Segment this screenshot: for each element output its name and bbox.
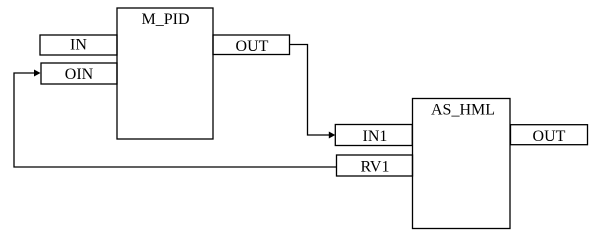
svg-text:IN: IN <box>70 37 87 54</box>
pin label OIN <box>65 66 94 83</box>
svg-text:IN1: IN1 <box>363 128 388 145</box>
wire RV1(AS_HML) to OIN(M_PID) feedback <box>14 73 337 167</box>
pin label OUT (AS_HML) <box>533 128 566 145</box>
svg-text:RV1: RV1 <box>361 159 390 176</box>
svg-text:OIN: OIN <box>65 66 94 83</box>
input pin box IN1 of AS_HML <box>335 125 412 146</box>
output pin box OUT of AS_HML <box>511 125 588 145</box>
arrowhead into IN1 <box>329 132 336 139</box>
svg-text:OUT: OUT <box>533 128 566 145</box>
output pin box OUT of M_PID <box>213 35 290 55</box>
pin label RV1 <box>361 159 390 176</box>
svg-text:AS_HML: AS_HML <box>431 102 495 119</box>
input pin box IN of M_PID <box>40 35 117 55</box>
pin label IN1 <box>363 128 388 145</box>
svg-text:OUT: OUT <box>236 38 269 55</box>
block name label M_PID <box>141 11 189 28</box>
wire OUT(M_PID) to IN1(AS_HML) <box>290 45 331 136</box>
svg-text:M_PID: M_PID <box>141 11 189 28</box>
function block U1 body (M_PID) <box>117 8 213 139</box>
pin label OUT (M_PID) <box>236 38 269 55</box>
function block U2 body (AS_HML) <box>413 99 511 229</box>
input pin box OIN of M_PID <box>41 63 117 84</box>
pin label IN <box>70 37 87 54</box>
input pin box RV1 of AS_HML <box>337 155 413 176</box>
arrowhead into OIN <box>34 70 41 77</box>
block name label AS_HML <box>431 102 495 119</box>
